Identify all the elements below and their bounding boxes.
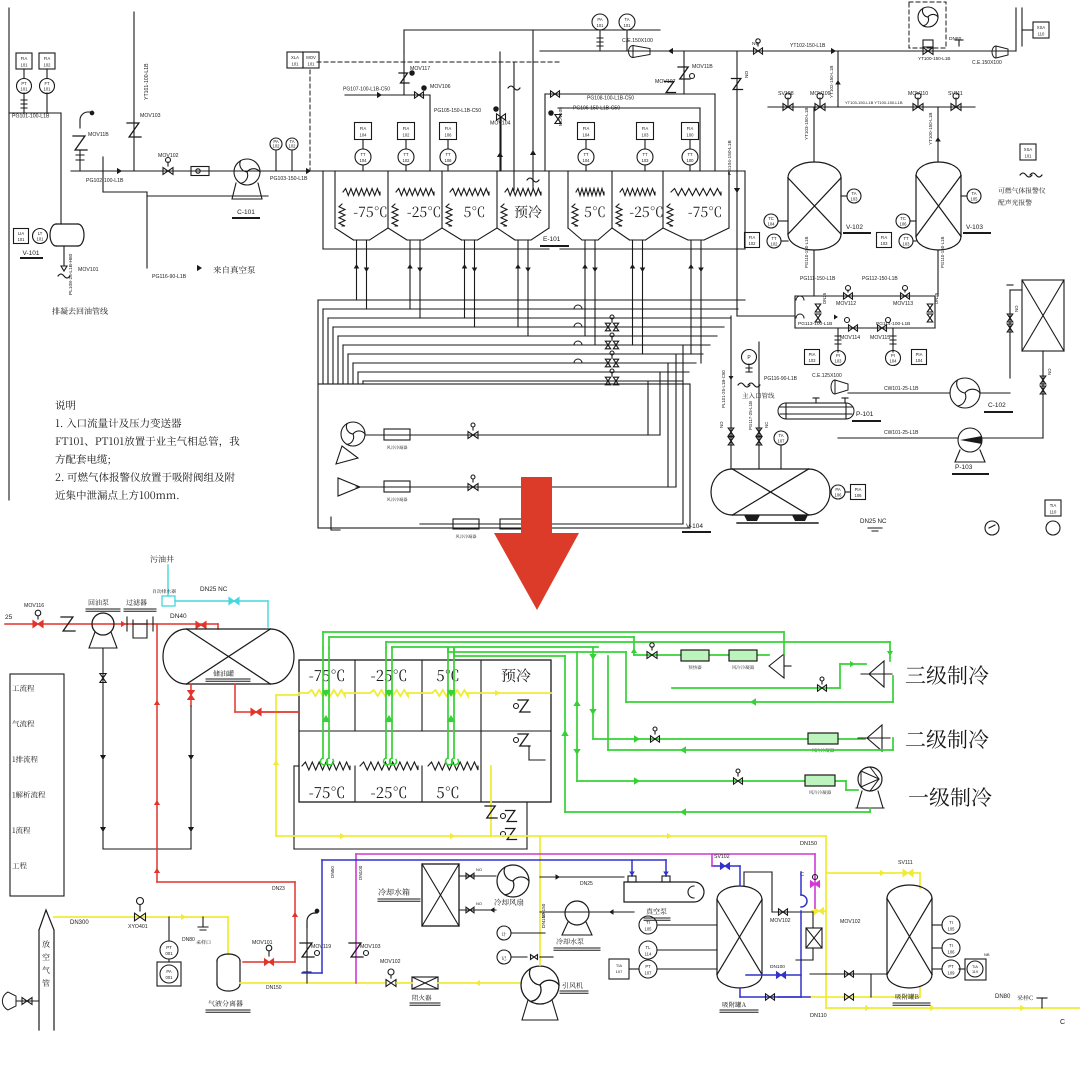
- wire yellow to separator: [227, 917, 229, 954]
- compressor C-101: [234, 159, 260, 185]
- valve MOV113: [901, 293, 910, 299]
- svg-text:101: 101: [21, 62, 29, 67]
- svg-text:PIA: PIA: [916, 352, 923, 357]
- svg-text:MOV11B: MOV11B: [692, 64, 713, 70]
- svg-text:MOV110: MOV110: [908, 91, 928, 97]
- instrument TIA-119: [965, 959, 986, 980]
- wire tank A top black: [743, 872, 745, 886]
- svg-text:103: 103: [809, 358, 817, 363]
- wire bus headers: [318, 299, 745, 301]
- svg-text:PT: PT: [166, 945, 172, 950]
- svg-text:DN25: DN25: [822, 292, 827, 304]
- wire upper manifold left: [403, 52, 405, 95]
- svg-text:DN80: DN80: [949, 36, 962, 42]
- instrument TL-114: [639, 941, 657, 959]
- svg-text:TI: TI: [949, 920, 953, 925]
- wire CW supply: [848, 392, 950, 394]
- svg-text:PT: PT: [948, 964, 954, 969]
- valve NC top right: [737, 50, 1016, 52]
- valve MOV119: [307, 913, 317, 927]
- vessel 气液分离器: [217, 961, 240, 984]
- wire bus left drops: [317, 300, 319, 384]
- svg-text:103: 103: [881, 241, 889, 246]
- equipment frame: [318, 384, 690, 528]
- vessel V-102: [788, 178, 841, 234]
- svg-text:TA: TA: [624, 17, 629, 22]
- valve SV102: [712, 865, 740, 867]
- svg-text:109: 109: [948, 971, 956, 976]
- vessel V-104: [732, 469, 808, 515]
- wire long vertical PG104: [736, 51, 738, 316]
- wire top right corner: [1015, 8, 1017, 51]
- wire magenta header: [356, 853, 815, 855]
- reducer: [992, 46, 1008, 58]
- wire funnels and headers: [335, 228, 388, 240]
- instrument PT-001: [160, 941, 178, 959]
- instrument columns left: [355, 123, 372, 140]
- wire yellow main header: [276, 835, 826, 837]
- cold box temperature labels bottom: [309, 787, 344, 799]
- vessel V-103: [916, 176, 961, 237]
- svg-text:NB: NB: [984, 952, 990, 957]
- wire yellow from coils: [490, 766, 492, 836]
- svg-text:TI: TI: [949, 943, 953, 948]
- svg-text:100: 100: [687, 133, 695, 138]
- svg-text:YT100-150-L1B: YT100-150-L1B: [918, 56, 950, 61]
- wire upper manifold right: [545, 93, 715, 95]
- svg-text:PG107-100-L1B-C50: PG107-100-L1B-C50: [343, 87, 390, 93]
- instrument PIA-104: [912, 350, 927, 365]
- wire tank to fan: [459, 875, 496, 877]
- pump 冷却水泵: [565, 901, 589, 925]
- Z valves precool: [514, 704, 519, 709]
- svg-text:PG102-100-L1B: PG102-100-L1B: [86, 178, 124, 184]
- svg-text:PT: PT: [21, 81, 27, 86]
- svg-text:NO: NO: [476, 901, 482, 906]
- svg-text:DN110: DN110: [810, 1013, 827, 1019]
- svg-text:106: 106: [948, 950, 956, 955]
- valve MOV114: [849, 325, 858, 331]
- condenser unit3: [729, 650, 757, 661]
- flame arrester vertical: [806, 928, 822, 948]
- wire unit3 supply: [633, 637, 635, 655]
- gas detector note: [1020, 144, 1036, 160]
- svg-text:C: C: [1060, 1019, 1065, 1026]
- svg-text:25: 25: [5, 614, 13, 621]
- wire vessel feeds: [813, 107, 815, 162]
- valve red DN40: [196, 622, 206, 629]
- cone unit3 return: [869, 661, 884, 687]
- wire bus right drops: [647, 381, 649, 435]
- vacuum pump 真空泵: [624, 882, 704, 902]
- svg-text:PG101-100-L1B: PG101-100-L1B: [12, 114, 50, 120]
- svg-text:XYO401: XYO401: [128, 924, 148, 930]
- pump P-101: [786, 403, 846, 419]
- svg-text:TT: TT: [403, 152, 409, 157]
- valve YT100 motorized: [923, 48, 933, 55]
- svg-text:103: 103: [851, 196, 859, 201]
- exchanger E-101 temperature labels: [339, 204, 345, 226]
- svg-text:MOV105: MOV105: [558, 107, 564, 126]
- instrument FIA-102: [39, 53, 55, 69]
- svg-text:101: 101: [18, 237, 26, 242]
- svg-text:TT: TT: [583, 152, 589, 157]
- svg-text:PL101-25-L1B-C50: PL101-25-L1B-C50: [721, 370, 726, 408]
- blower row 1: [341, 422, 365, 446]
- wire red into tank: [217, 624, 219, 629]
- svg-text:SV102: SV102: [714, 854, 730, 860]
- svg-text:104: 104: [768, 221, 776, 226]
- valve MOV103: [133, 12, 135, 171]
- wire main inlet drop: [730, 316, 732, 469]
- wire yellow to fan: [397, 982, 412, 984]
- svg-text:NC: NC: [752, 41, 759, 47]
- svg-text:MOV116: MOV116: [24, 603, 44, 609]
- svg-text:106: 106: [835, 492, 843, 497]
- wire yellow flare header: [54, 916, 228, 918]
- wire unit2 supply: [592, 647, 594, 739]
- svg-text:V-103: V-103: [966, 224, 983, 231]
- filter 过滤器: [126, 599, 147, 605]
- svg-text:104: 104: [583, 158, 591, 163]
- wire exchanger outlet: [1042, 351, 1044, 438]
- instrument TI-105a: [639, 916, 657, 934]
- svg-text:105: 105: [971, 196, 979, 201]
- wire main suction line: [71, 170, 313, 172]
- svg-text:C-101: C-101: [237, 209, 255, 216]
- svg-text:106: 106: [900, 221, 908, 226]
- svg-text:XSA: XSA: [1024, 147, 1033, 152]
- valve pair DN25 left: [815, 304, 821, 312]
- wire compressor discharge header: [540, 50, 737, 52]
- svg-text:001: 001: [165, 951, 173, 956]
- wire unit2 return: [608, 749, 893, 751]
- fan 冷却风扇: [497, 865, 529, 897]
- instrument LT-101: [33, 229, 48, 244]
- svg-text:PG111-150-L1B: PG111-150-L1B: [800, 276, 836, 282]
- svg-text:MOV109: MOV109: [810, 91, 831, 97]
- svg-text:FIA: FIA: [403, 126, 410, 131]
- wire yellow tank B bottom: [810, 996, 920, 998]
- svg-text:MOV107: MOV107: [655, 79, 676, 85]
- valve MOV102: [386, 980, 396, 987]
- label 来自真空泵: [213, 266, 255, 274]
- cold box extension: [293, 766, 295, 849]
- svg-text:CW101-25-L1B: CW101-25-L1B: [884, 430, 919, 436]
- yellow recovery wavy line: [299, 692, 308, 694]
- svg-text:LT: LT: [38, 231, 43, 236]
- valve cyan DN25: [229, 598, 239, 605]
- svg-text:SV108: SV108: [778, 91, 794, 97]
- svg-text:101: 101: [624, 23, 632, 28]
- svg-text:102: 102: [44, 62, 52, 67]
- svg-text:PT: PT: [645, 964, 651, 969]
- svg-text:FIA: FIA: [583, 126, 590, 131]
- svg-text:YT103-150-L1B YT100-150-L1B: YT103-150-L1B YT100-150-L1B: [845, 100, 903, 105]
- label 污油井: [150, 555, 173, 562]
- wire middle verticals: [499, 52, 501, 171]
- svg-text:V-102: V-102: [846, 224, 863, 231]
- svg-text:MOV103: MOV103: [360, 944, 381, 950]
- wire relief header: [768, 106, 975, 108]
- condenser row 3: [420, 523, 683, 525]
- svg-text:DN50: DN50: [330, 866, 335, 878]
- svg-text:MOV11B: MOV11B: [88, 132, 109, 138]
- svg-text:PG104-150-L1B: PG104-150-L1B: [727, 140, 733, 175]
- vessel 储油罐: [187, 629, 271, 684]
- svg-text:PG108-100-L1B-C50: PG108-100-L1B-C50: [587, 96, 634, 102]
- svg-text:101: 101: [21, 87, 29, 92]
- svg-text:CW101-25-L1B: CW101-25-L1B: [884, 386, 919, 392]
- wire regen manifold: [795, 295, 935, 297]
- instrument meters: [497, 926, 511, 940]
- instrument top corner: [1033, 22, 1049, 38]
- svg-text:XLA: XLA: [291, 55, 299, 60]
- svg-text:FIA: FIA: [360, 126, 367, 131]
- svg-text:119: 119: [972, 970, 978, 974]
- valve MOV101 drain: [63, 246, 65, 266]
- svg-text:NO: NO: [476, 867, 482, 872]
- svg-text:NO: NO: [1014, 305, 1019, 312]
- label 二级制冷: [906, 729, 989, 748]
- valve SV108: [783, 104, 793, 111]
- svg-text:101: 101: [44, 87, 52, 92]
- instrument FT-103: [877, 233, 892, 248]
- reducer P-101: [831, 380, 848, 394]
- svg-text:TL: TL: [646, 945, 652, 950]
- svg-text:PIA: PIA: [809, 352, 816, 357]
- svg-text:FIA: FIA: [445, 126, 452, 131]
- svg-text:104: 104: [360, 158, 368, 163]
- svg-text:DN150: DN150: [800, 841, 817, 847]
- svg-text:MOV112: MOV112: [836, 301, 856, 307]
- svg-text:YT101-100-L1B: YT101-100-L1B: [144, 63, 150, 100]
- svg-text:107: 107: [778, 438, 786, 443]
- wire unit3 return: [626, 701, 893, 703]
- svg-text:102: 102: [749, 241, 757, 246]
- wire bus hops: [574, 305, 582, 309]
- svg-text:103: 103: [642, 133, 650, 138]
- wire left frame: [8, 8, 10, 500]
- auto drainer: [162, 596, 175, 606]
- vessel V-101: [56, 224, 78, 246]
- svg-text:YT103-150-L1B: YT103-150-L1B: [804, 108, 809, 140]
- svg-text:PG114-100-L1B: PG114-100-L1B: [876, 321, 910, 327]
- wire red tank outlet: [234, 684, 236, 712]
- instrument PI-104: [886, 351, 901, 366]
- svg-text:103: 103: [835, 359, 843, 364]
- adsorber B: [887, 899, 932, 975]
- label 一级制冷: [909, 787, 992, 806]
- instrument LIA-101: [14, 229, 29, 244]
- wire hook vent MOV118: [80, 112, 90, 128]
- red transition arrow: [494, 477, 579, 610]
- svg-text:LIA: LIA: [18, 231, 24, 236]
- wire fitting stacks: [837, 328, 839, 352]
- svg-text:101: 101: [1025, 153, 1033, 158]
- cooling tank 冷却水箱: [422, 864, 459, 926]
- wire red separator link: [243, 961, 295, 963]
- svg-text:100: 100: [687, 158, 695, 163]
- exchanger E-101 frame: [313, 170, 745, 172]
- valve SV111: [951, 104, 961, 111]
- svg-text:PI: PI: [891, 353, 895, 358]
- svg-text:DN100: DN100: [770, 964, 785, 970]
- svg-text:C.E.125X100: C.E.125X100: [812, 373, 842, 379]
- condenser row 1: [384, 429, 410, 440]
- valve MOV109: [815, 104, 825, 111]
- node manifold entry: [306, 168, 311, 174]
- cone unit2: [867, 725, 882, 751]
- svg-text:FIA: FIA: [881, 235, 888, 240]
- svg-text:PA: PA: [597, 17, 602, 22]
- svg-text:NC: NC: [764, 422, 769, 428]
- svg-text:101: 101: [37, 237, 45, 242]
- svg-text:PG117-25-L1B: PG117-25-L1B: [748, 401, 753, 430]
- svg-text:105: 105: [645, 927, 653, 932]
- svg-text:V-104: V-104: [686, 523, 703, 530]
- svg-text:SV111: SV111: [898, 860, 913, 866]
- svg-text:107: 107: [645, 971, 653, 976]
- instrument TA-107: [774, 431, 788, 445]
- svg-text:MOV101: MOV101: [78, 267, 99, 273]
- vent cone row 2: [338, 478, 360, 496]
- svg-text:MOV114: MOV114: [840, 335, 860, 341]
- svg-text:PG110-150-L1B: PG110-150-L1B: [804, 237, 809, 268]
- svg-text:MOV102: MOV102: [380, 959, 401, 965]
- svg-text:NO: NO: [1047, 368, 1052, 375]
- instrument bottom right pair: [1045, 500, 1061, 516]
- svg-text:103: 103: [903, 241, 911, 246]
- Z valves below box: [501, 814, 506, 819]
- svg-text:102: 102: [273, 144, 281, 149]
- condenser unit2: [808, 733, 838, 744]
- wire cyan header: [175, 600, 268, 602]
- svg-text:FIA: FIA: [687, 126, 694, 131]
- svg-text:102: 102: [289, 144, 297, 149]
- svg-text:102: 102: [403, 158, 411, 163]
- instrument PA-102: [270, 138, 282, 150]
- wire bypass to vacuum pump: [102, 157, 104, 192]
- legend box: [10, 674, 64, 896]
- svg-text:MOV119: MOV119: [311, 944, 331, 950]
- wire drain well cyan: [167, 565, 169, 596]
- svg-text:C-102: C-102: [988, 402, 1006, 409]
- sample point: [202, 917, 204, 927]
- svg-text:101: 101: [597, 23, 605, 28]
- svg-text:105: 105: [948, 927, 956, 932]
- svg-text:NO: NO: [744, 71, 750, 78]
- valve MOV102 yellow: [812, 910, 826, 912]
- svg-text:104: 104: [916, 358, 924, 363]
- svg-text:106: 106: [445, 158, 453, 163]
- flame arrester 阻火器: [412, 977, 438, 989]
- valve pair DN25 right: [927, 304, 933, 312]
- flow element: [191, 167, 209, 176]
- svg-text:DN25 NC: DN25 NC: [860, 518, 887, 525]
- svg-text:MOV: MOV: [306, 55, 316, 60]
- svg-text:103: 103: [642, 158, 650, 163]
- svg-text:V-101: V-101: [23, 250, 40, 257]
- exchanger X-101: [1022, 280, 1064, 351]
- svg-text:MOV101: MOV101: [252, 940, 273, 946]
- svg-text:110: 110: [1050, 509, 1057, 514]
- condenser row 2: [384, 481, 410, 492]
- instrument FIA-101: [16, 53, 32, 69]
- svg-text:001: 001: [166, 975, 174, 980]
- wire top header: [404, 29, 660, 31]
- instrument PT-107: [639, 960, 657, 978]
- wire blue header: [322, 859, 666, 861]
- instrument PA-106: [831, 485, 845, 499]
- dashed blower box: [909, 2, 946, 48]
- wire dashed signal line: [317, 61, 560, 63]
- wire to exchanger: [1009, 290, 1011, 378]
- valve MOV110: [913, 104, 923, 111]
- label 排凝去回油管线: [52, 307, 108, 314]
- svg-text:101: 101: [308, 61, 316, 66]
- svg-text:PG105-150-L1B-C50: PG105-150-L1B-C50: [434, 108, 481, 114]
- wire instrument stems: [23, 69, 25, 78]
- wire feed to V-101: [9, 112, 61, 114]
- svg-text:104: 104: [360, 133, 368, 138]
- svg-text:TI: TI: [646, 920, 650, 925]
- svg-text:FIA: FIA: [44, 56, 51, 61]
- svg-text:TT: TT: [445, 152, 451, 157]
- wire yellow to SV111: [826, 872, 920, 874]
- wire vacuum discharge: [540, 911, 634, 913]
- instrument gauge: [985, 521, 999, 535]
- svg-text:DN150: DN150: [541, 903, 546, 918]
- svg-text:TT: TT: [642, 152, 648, 157]
- instrument TA-103: [847, 189, 861, 203]
- svg-text:MOV115: MOV115: [870, 335, 890, 341]
- svg-text:PIA: PIA: [855, 487, 862, 492]
- svg-text:MOV102: MOV102: [840, 919, 861, 925]
- preheater: [681, 650, 709, 661]
- svg-text:110: 110: [1038, 31, 1045, 36]
- instrument TI-105b: [942, 916, 960, 934]
- svg-text:DN150: DN150: [266, 985, 282, 991]
- svg-text:PG116-90-L1B: PG116-90-L1B: [764, 376, 798, 382]
- wire tank B left: [810, 973, 887, 975]
- svg-text:PG113-100-L1B: PG113-100-L1B: [798, 321, 832, 327]
- instrument PIA-106: [851, 485, 866, 500]
- svg-text:114: 114: [645, 952, 652, 957]
- wire unit1 supply: [576, 652, 578, 781]
- svg-text:DN80: DN80: [182, 937, 195, 943]
- svg-text:TT: TT: [687, 152, 693, 157]
- instrument TI-106: [942, 939, 960, 957]
- svg-text:FIA: FIA: [21, 56, 28, 61]
- wire tank A bottom blue: [739, 988, 741, 997]
- svg-text:107: 107: [616, 969, 623, 974]
- instrument PT-101: [17, 79, 32, 94]
- svg-text:PG116-90-L1B: PG116-90-L1B: [152, 274, 187, 280]
- green bus headers: [323, 631, 784, 633]
- svg-text:DN40: DN40: [170, 613, 187, 620]
- instrument TC-106: [896, 214, 910, 228]
- svg-text:NO: NO: [719, 421, 724, 428]
- green exchanger passes: [322, 648, 324, 758]
- wire yellow separator outlet: [240, 982, 384, 984]
- valve red tank drain: [190, 684, 192, 706]
- svg-text:MOV102: MOV102: [770, 918, 791, 924]
- compressor C-102: [950, 378, 980, 408]
- svg-text:MOV103: MOV103: [140, 113, 161, 119]
- instrument columns right: [578, 123, 595, 140]
- svg-text:FT: FT: [44, 81, 50, 86]
